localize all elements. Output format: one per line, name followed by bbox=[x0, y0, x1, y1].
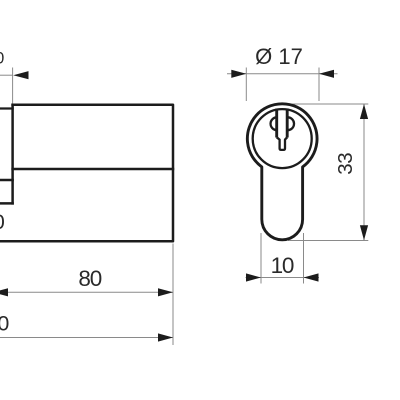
svg-text:0: 0 bbox=[0, 210, 5, 234]
svg-text:33: 33 bbox=[334, 153, 357, 175]
svg-text:10: 10 bbox=[271, 253, 294, 278]
svg-text:0: 0 bbox=[0, 312, 9, 336]
svg-text:0: 0 bbox=[0, 49, 4, 67]
svg-text:80: 80 bbox=[78, 266, 101, 291]
svg-text:Ø 17: Ø 17 bbox=[255, 44, 303, 69]
